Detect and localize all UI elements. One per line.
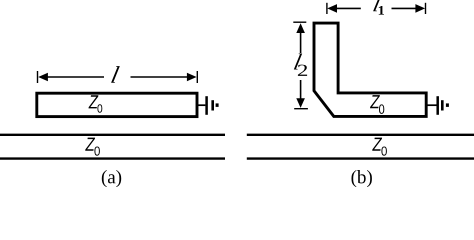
main line Z0 (fig b) lower conductor [247,157,474,159]
dimension l (length of straight stub, fig a) [38,66,198,83]
main line Z0 (fig a) lower conductor [0,157,225,159]
main line Z0 (fig b) upper conductor [247,134,474,136]
caption (b) [352,170,372,187]
wire (stub b to termination) [427,104,437,106]
dimension l2 (vertical arm, fig b) [293,22,308,109]
caption (a) [102,170,121,187]
termination plates (fig b) [438,96,449,115]
dimension l1 (horizontal arm, fig b) [327,0,426,15]
wire (stub a to termination) [198,104,206,106]
label Z0 (main line, fig a) [85,138,95,151]
label Z0 (main line, fig b) [372,138,382,151]
termination plates (fig a) [207,96,219,115]
main line Z0 (fig a) upper conductor [0,134,225,136]
stub Z0 (straight open stub, fig a) [37,93,197,116]
stub Z0 (bent L-shaped open stub, fig b) [314,23,426,116]
